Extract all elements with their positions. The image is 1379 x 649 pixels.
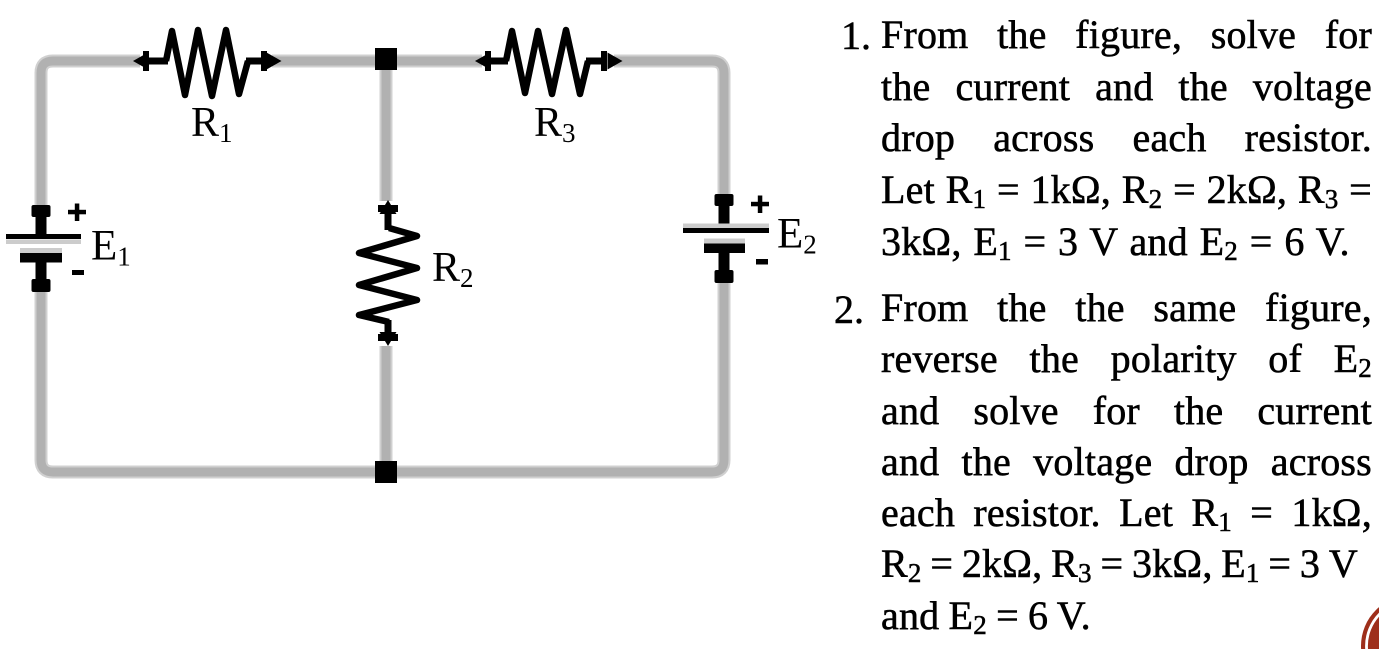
battery E2 bbox=[683, 194, 769, 283]
resistor R1 bbox=[133, 30, 282, 96]
svg-text:E2: E2 bbox=[777, 211, 817, 260]
wire: middle vertical lower bbox=[382, 346, 391, 472]
wire: middle vertical upper bbox=[382, 61, 391, 201]
svg-text:R3: R3 bbox=[534, 100, 576, 148]
resistor R2 (vertical) bbox=[359, 200, 417, 346]
wire: left upper + top-left corner + top to R1 bbox=[41, 61, 140, 206]
wire: after R3 + top-right corner + right upper to E2 bbox=[614, 61, 724, 195]
wire: top middle between R1 and R3 (through node) bbox=[272, 57, 482, 66]
minus sign E1 bbox=[72, 270, 84, 275]
resistor R3 bbox=[475, 30, 623, 94]
svg-text:R2: R2 bbox=[432, 245, 474, 293]
decorative red circle (slide page-number badge) bbox=[1361, 595, 1379, 649]
numbered problem text bbox=[841, 12, 871, 60]
minus sign E2 bbox=[756, 259, 768, 265]
wire halo (soft edge) bbox=[41, 61, 140, 206]
node B (bottom junction) bbox=[375, 461, 397, 483]
plus sign E1 bbox=[68, 210, 86, 215]
svg-text:E1: E1 bbox=[91, 223, 131, 272]
plus sign E2 bbox=[751, 202, 769, 207]
battery E1 bbox=[6, 204, 86, 293]
node A (top junction) bbox=[375, 48, 397, 70]
wire: right lower + bottom + left lower bbox=[41, 281, 724, 472]
svg-text:R1: R1 bbox=[191, 100, 233, 148]
